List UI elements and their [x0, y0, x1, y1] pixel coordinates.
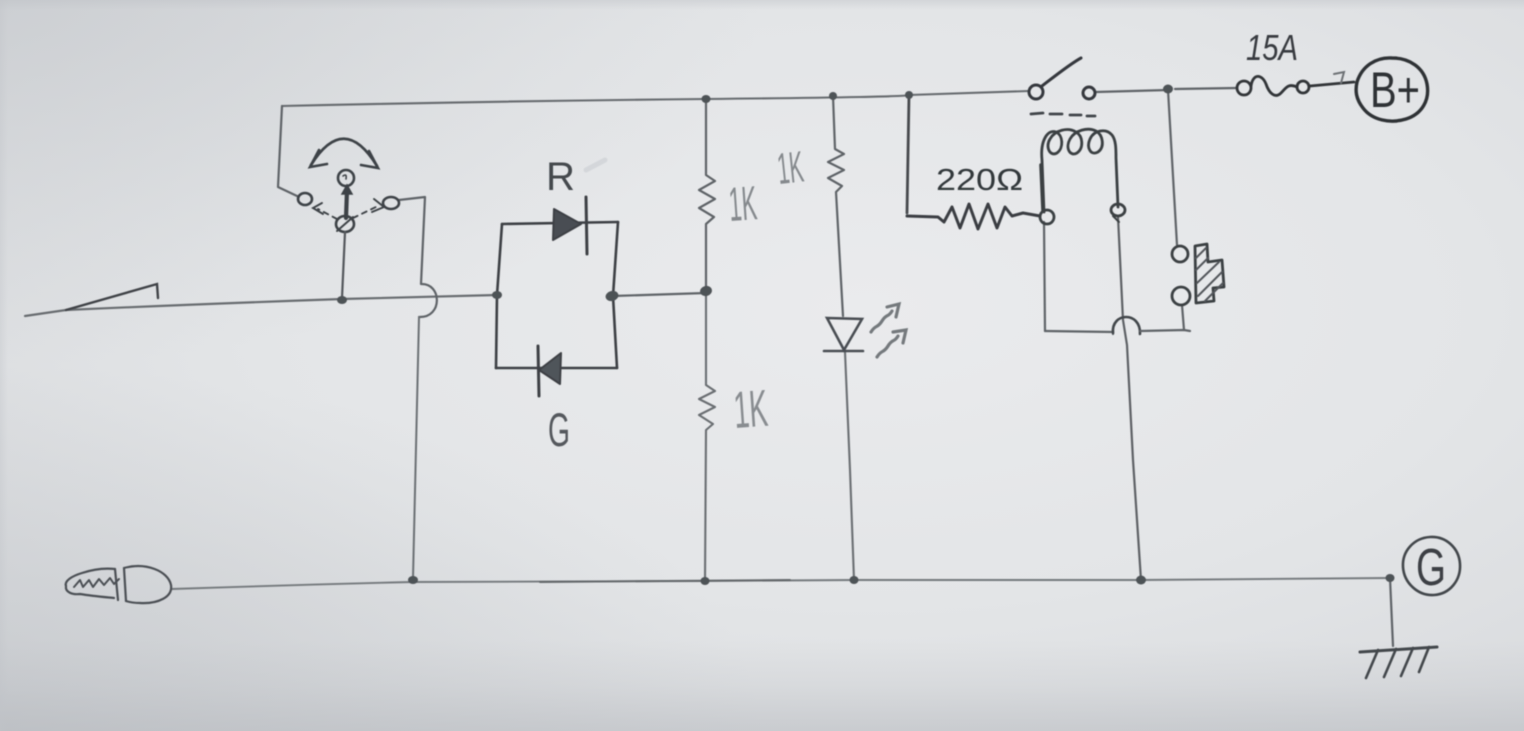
svg-text:G: G: [548, 403, 570, 456]
svg-text:1K: 1K: [727, 177, 759, 232]
svg-text:1K: 1K: [775, 142, 806, 193]
svg-text:220Ω: 220Ω: [936, 162, 1023, 197]
svg-text:15A: 15A: [1246, 27, 1298, 68]
svg-text:G: G: [1416, 539, 1446, 597]
svg-text:B+: B+: [1370, 62, 1420, 118]
svg-text:1K: 1K: [732, 380, 770, 440]
svg-text:R: R: [546, 155, 575, 199]
